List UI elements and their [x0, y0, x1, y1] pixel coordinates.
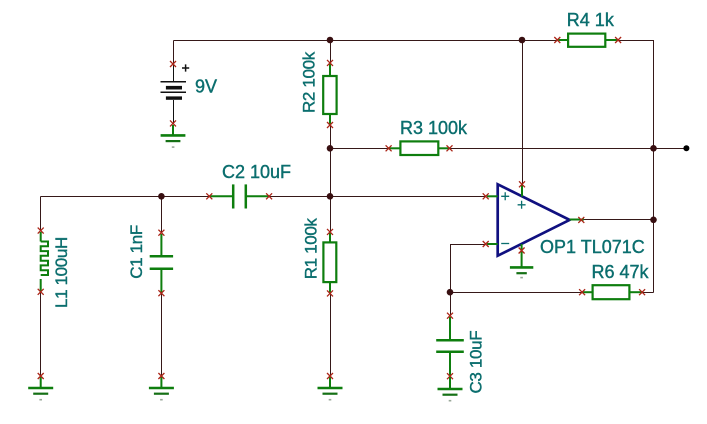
junction node input C1: [158, 193, 165, 200]
ground opamp: [510, 267, 533, 277]
svg-text:9V: 9V: [195, 77, 217, 97]
wire bottom right to R6: [642, 292, 653, 294]
wire opamp power from top rail: [522, 41, 524, 185]
wire C1 bottom to ground: [161, 293, 163, 376]
wire C3 top: [450, 293, 452, 316]
resistor R3 100k: [386, 141, 453, 155]
svg-text:R4 1k: R4 1k: [567, 10, 615, 30]
wire opamp output to right rail: [581, 219, 654, 221]
wire inverting feedback: [451, 245, 486, 293]
wire top rail R4 right to corner: [618, 40, 654, 42]
svg-text:C2 10uF: C2 10uF: [222, 162, 291, 182]
wire C1 top: [161, 197, 163, 233]
terminal output: [683, 145, 689, 151]
junction node output rail: [650, 217, 657, 224]
wire node R3 to input node vertical: [330, 149, 332, 197]
svg-text:R2 100k: R2 100k: [300, 51, 319, 113]
wire top rail battery to R4 left: [174, 40, 558, 42]
wire R1 bottom to ground: [330, 293, 332, 376]
wire input row left: [41, 196, 210, 198]
wire L1 bottom to ground: [40, 292, 42, 376]
ground L1: [28, 373, 53, 400]
svg-text:C3 10uF: C3 10uF: [467, 331, 486, 394]
wire R2 bottom to R3 node: [330, 125, 332, 149]
svg-text:L1 100uH: L1 100uH: [52, 237, 71, 308]
junction node input R1: [327, 193, 334, 200]
svg-text:R6 47k: R6 47k: [592, 262, 650, 282]
junction node R2 bottom R3: [327, 145, 334, 152]
wire bottom row R6 to feedback node: [450, 292, 582, 294]
junction node R3 right rail: [650, 145, 657, 152]
wire R2 top lead: [330, 41, 332, 63]
wire R3 right to output terminal: [450, 148, 687, 150]
battery B1 9V: [161, 61, 190, 126]
wire R3 node to R3 left: [331, 148, 389, 150]
ground C1: [149, 373, 174, 400]
junction node top opamp power: [519, 37, 526, 44]
wire R1 top: [330, 197, 332, 232]
wire battery top lead: [173, 41, 175, 65]
svg-text:R1 100k: R1 100k: [302, 218, 321, 280]
resistor R6 47k: [579, 285, 645, 299]
ground R1: [318, 373, 343, 400]
resistor R4 1k: [554, 34, 621, 47]
resistor R1 100k: [323, 229, 336, 297]
junction node feedback C3: [447, 289, 454, 296]
wire right vertical rail: [653, 41, 655, 293]
svg-text:C1 1nF: C1 1nF: [127, 225, 146, 279]
op-amp OP1 TL071C: [483, 181, 585, 267]
wire L1 top: [40, 197, 42, 231]
junction node top R2: [327, 37, 334, 44]
ground C3: [438, 377, 463, 401]
capacitor C3 10uF: [436, 313, 464, 380]
inductor L1 100uH: [38, 228, 48, 295]
svg-text:R3 100k: R3 100k: [400, 118, 468, 138]
resistor R2 100k: [323, 60, 336, 128]
wire input row right to opamp: [269, 196, 486, 198]
svg-text:OP1 TL071C: OP1 TL071C: [540, 237, 645, 257]
capacitor C2 10uF: [206, 184, 272, 208]
ground battery: [161, 125, 186, 147]
capacitor C1 1nF: [150, 230, 173, 297]
